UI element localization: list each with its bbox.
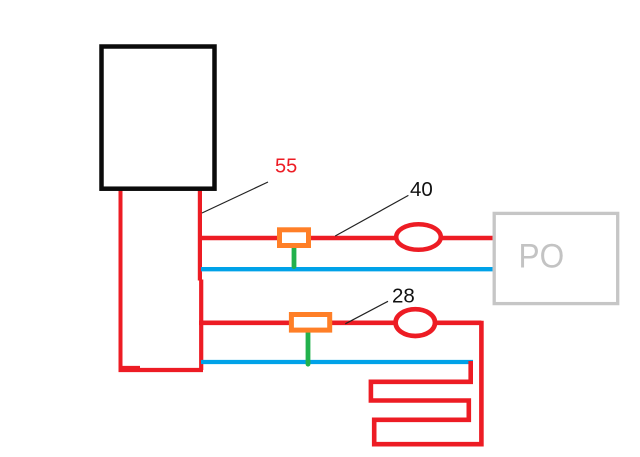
leader line to label 28	[345, 301, 388, 324]
wire: manifold bottom horizontal (red)	[119, 368, 204, 372]
valve actuator stem 2 (green)	[306, 331, 311, 364]
floor heating loop serpentine (red)	[371, 321, 482, 444]
svg-text:28: 28	[392, 284, 415, 307]
valve 1 (orange box)	[280, 230, 309, 246]
valve actuator stem 1 (green)	[292, 247, 297, 267]
wire: manifold bottom overdraw notch (red)	[119, 366, 140, 369]
leader line to label 55	[202, 182, 268, 213]
wire: upper return line (blue)	[201, 267, 493, 271]
svg-text:40: 40	[410, 178, 433, 201]
leader line to label 40	[335, 195, 408, 236]
wire: manifold right vertical lower segment (red)	[199, 280, 203, 371]
wire: manifold right vertical upper segment (red)	[198, 188, 202, 281]
wire: lower return line (blue)	[201, 360, 473, 364]
wire: upper supply line to PO (red)	[199, 236, 493, 241]
wire: manifold left vertical (red)	[119, 189, 123, 372]
wire: lower supply line to floor loop (red)	[199, 320, 481, 325]
radiator PO (gray box)	[494, 213, 618, 303]
pump 2 (red ellipse)	[396, 309, 435, 336]
boiler (black box)	[102, 47, 215, 189]
svg-text:PO: PO	[519, 237, 565, 275]
svg-text:55: 55	[275, 156, 297, 178]
valve 2 (orange box)	[291, 315, 329, 331]
pump 1 (red ellipse)	[396, 224, 441, 250]
